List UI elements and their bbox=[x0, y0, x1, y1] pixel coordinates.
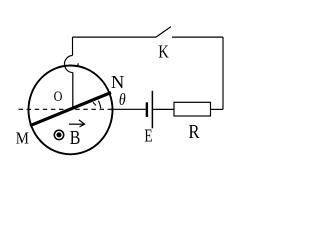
battery E long plate bbox=[151, 91, 153, 129]
wire: resistor to battery bbox=[152, 108, 174, 110]
circular rim (conducting ring) bbox=[29, 66, 113, 155]
svg-text:M: M bbox=[16, 129, 29, 148]
wire: battery to rim contact at right edge of circle bbox=[113, 108, 147, 110]
switch K blade bbox=[156, 27, 171, 37]
svg-text:K: K bbox=[158, 41, 169, 61]
battery E short plate bbox=[146, 102, 148, 117]
wire: bottom rail right corner to resistor bbox=[211, 108, 224, 110]
rod MN (rotating conductor) bbox=[30, 93, 111, 126]
svg-text:B: B bbox=[70, 127, 81, 149]
wire hop (crossover loop over rim) bbox=[64, 56, 72, 73]
wire: lower vertical lead from hop to centre O bbox=[72, 73, 74, 109]
wire: top rail from left corner to switch bbox=[73, 36, 157, 38]
field symbol: circled dot (B out of page) bbox=[54, 130, 63, 139]
dashed horizontal diameter line bbox=[19, 108, 113, 110]
small tick on rim right of hop bbox=[77, 63, 78, 66]
svg-text:θ: θ bbox=[119, 90, 126, 109]
wire: upper vertical lead from top rail down to hop bbox=[72, 37, 74, 55]
svg-text:O: O bbox=[54, 89, 63, 105]
wire: right vertical rail bbox=[222, 37, 224, 109]
wire: top rail from switch to right corner bbox=[172, 36, 223, 38]
angle theta arc bbox=[98, 101, 101, 109]
vector arrow over B bbox=[69, 123, 84, 125]
angle arc arrow barb bbox=[93, 102, 96, 105]
resistor R body bbox=[174, 102, 211, 116]
svg-text:R: R bbox=[188, 121, 200, 143]
svg-text:E: E bbox=[144, 126, 152, 146]
